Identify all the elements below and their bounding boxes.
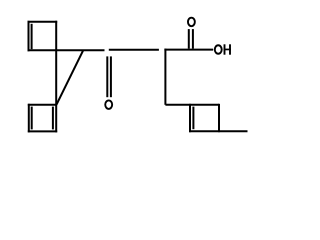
ring C (bottom-right cyclobutene) left edge [189,104,191,132]
ring A double-bond inner line [31,24,33,49]
atom label O of OH (hydroxyl) [215,45,222,54]
ring B (bottom-left) top edge [28,104,56,106]
carboxyl C=O double bond line 2 [192,29,194,48]
atom label O (carboxyl) [188,18,195,27]
ring C right edge [218,104,220,132]
bond C5 down to ring C wire [164,49,166,105]
ring B double-bond inner line left [31,107,33,130]
ketone C=O double bond line 2 [110,56,112,97]
ring C double-bond inner line [192,107,194,130]
ring B double-bond inner line right [52,107,54,130]
spine: ring A right edge + bond C1-C2 + ring B right edge [55,21,57,133]
carboxyl C=O double bond line 1 [188,29,190,48]
chain bond C5-COOH wire [164,49,213,51]
atom label H of OH (hydroxyl) [224,44,231,54]
atom label O (ketone) [105,100,112,109]
bond to ring C + ring C top edge [165,104,219,106]
ring A left edge [28,21,30,52]
ring B bottom edge [28,130,57,132]
ring A (top-left cyclobutene) top edge [28,21,58,23]
cyclopropane diagonal bond C3-C2 [56,50,83,105]
ring A bottom edge + bond C1-C3 + bond C3-C(=O) wire [28,49,105,51]
chain bond C(=O)-CH2 wire [109,49,159,51]
ring B left edge [28,104,30,133]
ring C bottom edge + ethyl tail wire [189,130,248,132]
ketone C=O double bond line 1 [106,56,108,97]
